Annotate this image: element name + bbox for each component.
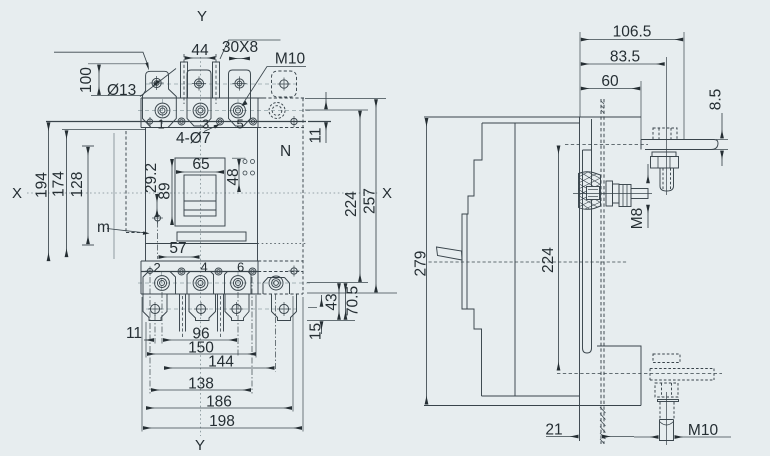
leader top-left to lug1 [54,52,148,66]
svg-text:128: 128 [69,172,86,198]
body step line [146,243,258,245]
dim 89 [171,159,173,225]
top terminal lug 1 [143,71,177,127]
lug hole 3 [232,76,246,90]
top terminal lug 3 [229,70,251,126]
leader 30X8 [220,40,281,59]
leader dia13 [140,69,176,97]
M8 washer 2 [613,184,620,203]
interior contour line [514,123,516,396]
toggle handle side [437,247,463,260]
insulator block hatched [579,172,601,210]
mounting plate m dashed [126,131,146,233]
dim 224 side [558,146,560,371]
escutcheon outer [175,158,225,226]
leader M10 [243,67,307,105]
dim 106.5 [581,39,683,41]
handle window [184,175,216,216]
leader 4-07 [204,125,219,132]
bottom boss 4 [187,272,214,295]
top terminal plate [141,97,263,99]
bottom lug 2 [143,294,167,321]
small hole 29.2 [152,213,163,224]
big bottom hole 2 [155,276,170,291]
lug hole 1 (Ø13) [150,76,164,90]
svg-text:224: 224 [343,191,360,217]
busbar 30x8 pole1 [181,62,188,98]
svg-text:m: m [97,219,110,236]
svg-text:83.5: 83.5 [610,49,640,66]
big N hole top (hidden dashed) [269,103,285,119]
small hole bottom right [289,266,300,277]
svg-text:30X8: 30X8 [222,39,258,56]
hidden line bracket behind panel [565,144,648,146]
dim 224 front [359,111,361,282]
M8 stud [631,189,648,199]
svg-text:198: 198 [209,413,235,430]
small hole bottom left [146,267,155,276]
svg-text:2: 2 [154,260,161,275]
breaker back face [579,117,581,441]
bottom busbar pole6 [218,294,224,338]
dim 57 [159,256,200,258]
dim M10 [634,436,658,438]
mounting panel dashed [601,99,604,444]
svg-text:Y: Y [195,437,205,454]
hole-row centerlines (light dashed) [138,84,312,309]
left dims: 194 [48,123,50,261]
base line [424,405,641,407]
svg-text:279: 279 [413,251,430,277]
mounting hole Ø7 top c [250,118,257,125]
bottom bracket block [597,346,641,406]
breaker body top [482,122,580,124]
bottom boss 6 [225,272,252,295]
svg-text:138: 138 [188,376,214,393]
dim 15 [321,295,323,307]
bottom busbar pole4 [180,294,186,338]
big bottom hole 4 [193,276,208,291]
busbar centerlines dashed [184,54,216,104]
dim 30X8 [229,58,249,60]
M10 hidden thread [660,402,674,419]
svg-text:M8: M8 [629,208,646,230]
escutcheon side inner line [466,214,468,309]
bottom N boss [263,278,290,295]
svg-text:4: 4 [201,260,208,275]
svg-text:3: 3 [202,117,209,132]
bottom lug 4 [189,294,216,321]
small hole top right [289,116,300,127]
vent holes [243,160,255,176]
dim 150 [147,353,256,355]
ext lines bottom right [307,282,368,284]
svg-text:89: 89 [157,182,174,199]
lug hole 2 [192,76,206,90]
dim M8 [647,164,649,183]
bracket bolt nut [651,157,679,169]
SIDE TEXT [413,24,725,440]
N section right edge dashed [302,98,304,294]
body outline [145,128,147,262]
bracket stud [660,168,674,191]
bracket bolt washer [652,152,676,157]
dim 70.5 [345,284,347,320]
svg-text:5: 5 [237,117,244,132]
busbar 30x8 pole3 [213,62,220,98]
leader m [107,229,147,234]
top edge / extension line [424,116,641,118]
dim 60 [581,88,640,90]
svg-text:X: X [382,185,392,202]
aux thin line left [113,133,115,259]
svg-text:100: 100 [78,67,95,93]
centerline axis Y (vertical) [200,57,202,436]
bracket bolt axis [666,57,668,195]
dim 29.2 [156,194,158,217]
svg-text:70.5: 70.5 [345,286,362,316]
handle [184,200,216,202]
line through top mounting holes [46,121,306,123]
dim 48 [238,159,240,192]
svg-text:6: 6 [237,260,244,275]
bottom terminal block [141,260,258,262]
dim 21 [546,436,578,438]
svg-text:Y: Y [197,8,207,25]
hidden nut above bracket [653,128,677,140]
svg-text:194: 194 [34,172,51,198]
mounting hole Ø7 bottom c [249,268,256,275]
svg-text:11: 11 [126,325,142,342]
bottom boss 2 [143,272,176,295]
svg-text:M10: M10 [688,422,719,439]
rear busbar strip [583,119,592,353]
stud axis [573,193,652,195]
svg-text:43: 43 [324,293,341,310]
left dims: 128 [87,147,89,244]
svg-text:N: N [280,143,291,160]
mounting hole Ø7 top a [178,118,185,125]
dim 43 [338,284,340,320]
dim 257 front [375,100,377,293]
dim 11 top right [325,92,327,109]
M8 washer 1 [606,181,613,206]
top terminal lug 2 [187,70,211,126]
svg-text:144: 144 [208,354,234,371]
top N lug (hidden, dashed) [272,71,297,97]
breaker front stepped profile [462,123,482,396]
mounting hole centerline bottom / M10 axis [557,373,722,375]
svg-text:65: 65 [192,156,209,173]
M10 washer small [658,400,679,402]
dim 8.5 [721,113,723,138]
svg-text:224: 224 [540,247,557,273]
svg-text:4-Ø7: 4-Ø7 [176,130,210,147]
dim 83.5 [581,63,665,65]
bottom lug holes [148,302,291,316]
FRONT TEXT [12,8,392,454]
M10 stud visible end [660,420,674,441]
left dims: 174 [66,131,68,257]
dim 198 [143,427,302,429]
small hole top left [146,117,155,126]
svg-text:M10: M10 [275,51,306,68]
bottom dims row1: 11 and 96 [144,339,154,341]
plate hatch top segment [601,101,604,113]
mounting hole Ø7 top b [217,118,224,125]
FRONT VIEW [27,54,378,436]
panel hatched section below [600,407,606,444]
handle travel dashed line [429,261,628,263]
body bottom [482,395,580,397]
svg-text:60: 60 [601,73,619,90]
dim 138 [151,389,251,391]
svg-text:X: X [12,185,22,202]
M8 nut [619,185,631,207]
svg-text:174: 174 [51,171,68,197]
SIDE DIMENSIONS [427,32,732,437]
dim 100 [98,65,100,95]
centerline axis X (horizontal) [27,192,378,194]
svg-text:57: 57 [169,240,186,257]
svg-text:8.5: 8.5 [708,89,725,111]
N lug hole [278,78,291,91]
big terminal hole 5 [231,103,246,118]
big bottom hole N [269,276,283,290]
dim 44 [185,57,215,59]
bottom lug N [272,294,297,321]
svg-text:11: 11 [308,127,325,143]
svg-text:1: 1 [158,117,165,132]
top bracket plate [641,140,718,150]
mounting hole Ø7 bottom b [215,268,222,275]
dim 65 [176,171,224,173]
svg-text:15: 15 [308,323,325,340]
bottom lug 6 [225,294,249,321]
mounting hole Ø7 bottom a [178,268,185,275]
big bottom hole 6 [231,276,246,291]
M10 hidden washers and nut [650,354,714,397]
svg-text:Ø13: Ø13 [107,82,136,99]
dim 144 [164,367,274,369]
svg-text:21: 21 [545,422,562,439]
big terminal hole 3 [193,103,208,118]
svg-text:257: 257 [362,188,379,214]
dim 186 [146,407,292,409]
svg-text:106.5: 106.5 [613,24,652,41]
nameplate slot [177,232,246,241]
FRONT DIMENSIONS [49,40,398,432]
dim 279 [426,118,428,404]
big terminal hole 1 [155,103,170,118]
line through bottom mounting holes [141,271,258,273]
svg-text:44: 44 [191,42,209,59]
svg-text:186: 186 [206,394,232,411]
SIDE VIEW [424,57,722,445]
square nut on stud [587,187,600,200]
svg-text:48: 48 [225,168,242,185]
